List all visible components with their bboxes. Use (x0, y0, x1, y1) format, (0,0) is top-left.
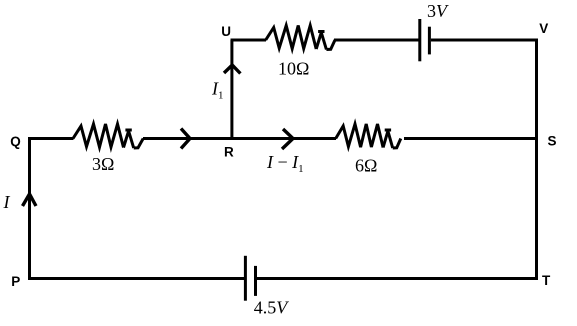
svg-text:V: V (539, 21, 548, 36)
svg-text:R: R (224, 145, 234, 160)
svg-text:I: I (3, 192, 11, 212)
svg-text:Q: Q (10, 134, 21, 149)
resistor 3ohm zigzag (73, 124, 143, 148)
svg-text:6Ω: 6Ω (355, 156, 377, 176)
svg-text:I − I1: I − I1 (266, 152, 304, 175)
current arrow I on Q-R wire (181, 129, 190, 149)
current arrow I1 on R-U wire (224, 65, 240, 74)
resistor 6ohm zigzag (336, 124, 401, 148)
wire R-U vertical branch (230, 40, 233, 140)
battery 4.5V (245, 256, 255, 301)
svg-text:S: S (548, 134, 557, 149)
wire U to 10ohm resistor (231, 39, 267, 42)
resistor 10ohm zigzag (266, 26, 335, 50)
svg-text:P: P (11, 274, 20, 289)
wire 3ohm to R (143, 137, 233, 140)
svg-text:3V: 3V (427, 1, 449, 21)
wire Q to 3ohm resistor (28, 137, 74, 140)
wire battery 4.5V to T bottom right (257, 277, 538, 280)
current arrow I-I1 on R-S wire (282, 129, 293, 149)
svg-text:U: U (221, 24, 231, 39)
wire 6ohm to S (404, 137, 537, 140)
current arrow I on P-Q wire (23, 194, 37, 206)
svg-text:T: T (542, 273, 551, 288)
wire P-Q left branch (28, 137, 31, 280)
battery 3V (420, 19, 430, 61)
wire 10ohm to battery 3V (334, 39, 419, 42)
wire P to battery 4.5V bottom left (28, 277, 244, 280)
svg-text:3Ω: 3Ω (92, 154, 114, 174)
wire battery 3V to V (431, 39, 538, 42)
svg-text:10Ω: 10Ω (278, 59, 309, 79)
wire R to 6ohm resistor (232, 137, 336, 140)
wire V-S-T right branch (535, 39, 538, 281)
svg-text:4.5V: 4.5V (254, 298, 289, 318)
